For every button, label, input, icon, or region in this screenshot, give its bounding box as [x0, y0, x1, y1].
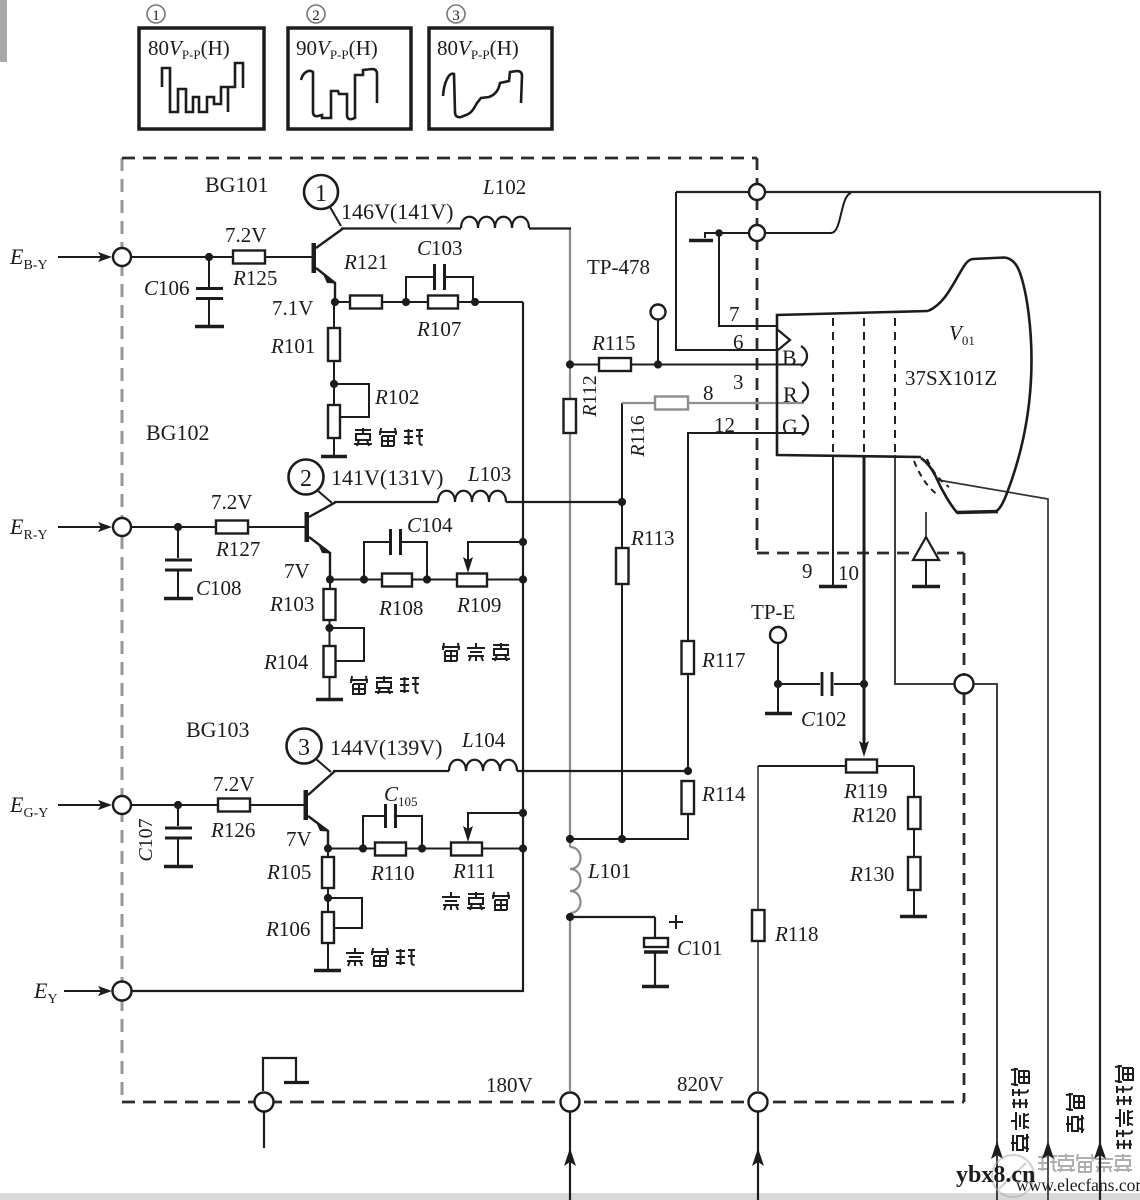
svg-text:R120: R120	[851, 803, 896, 827]
resistor R121	[350, 296, 382, 309]
node dot rail-839	[566, 835, 574, 843]
wire R130 to ground	[913, 890, 915, 915]
potentiometer R106	[322, 898, 362, 969]
resistor R112	[564, 399, 577, 433]
svg-text:7.1V: 7.1V	[272, 296, 313, 320]
svg-text:C107: C107	[135, 818, 157, 861]
svg-text:L104: L104	[461, 728, 506, 752]
ground bar C108	[164, 597, 193, 601]
svg-text:R108: R108	[378, 596, 423, 620]
svg-text:1: 1	[315, 181, 327, 207]
wire R119 rail	[758, 765, 914, 767]
wire below deflection node	[263, 1112, 265, 1149]
wire R115 to B cathode	[631, 364, 804, 366]
node dot EY-R109wiper	[519, 538, 527, 546]
node dot R115 tap on 180V rail	[566, 360, 574, 368]
wire L103 to R113 top	[506, 501, 622, 503]
svg-text:BG103: BG103	[186, 717, 250, 742]
svg-text:C104: C104	[407, 513, 453, 537]
inductor L104	[449, 760, 517, 771]
test point TP-478 circle	[651, 305, 666, 365]
wire input to base BG103	[131, 804, 304, 806]
svg-text:R111: R111	[452, 859, 496, 883]
R109 wiper arrow	[463, 542, 523, 573]
high voltage arrow	[1042, 1141, 1054, 1159]
high voltage label (rotated)	[1066, 1093, 1084, 1133]
svg-text:2: 2	[312, 8, 320, 24]
svg-text:B: B	[782, 345, 797, 370]
svg-text:146V(141V): 146V(141V)	[341, 199, 453, 224]
wire R108 to R109	[412, 579, 457, 581]
input arrow E B-Y	[58, 252, 112, 262]
svg-text:R117: R117	[701, 648, 746, 672]
green drive label	[442, 892, 510, 910]
820V supply wire with arrow	[752, 1112, 764, 1200]
svg-text:C101: C101	[677, 936, 723, 960]
watermark logo circle	[992, 1155, 1034, 1197]
wire collector to L103	[334, 501, 438, 503]
green cutoff label	[346, 948, 415, 966]
resistor R107	[428, 296, 458, 309]
cathode R bracket	[802, 382, 808, 402]
node label circle 2	[307, 5, 325, 24]
resistor R127	[216, 521, 248, 534]
resistor R105	[322, 849, 334, 899]
pin 10 wire	[863, 455, 866, 748]
wire lower circle step up to top line	[765, 193, 851, 233]
capacitor C101 electrolytic	[644, 917, 668, 985]
ground bar C101	[642, 985, 669, 989]
180V rail wire	[569, 228, 571, 1091]
node circle 180V	[561, 1093, 580, 1112]
svg-text:37SX101Z: 37SX101Z	[905, 366, 997, 390]
wire R111 to EY bus	[482, 848, 523, 850]
resistor R116	[655, 397, 688, 410]
capacitor C102	[778, 672, 864, 696]
svg-text:TP-478: TP-478	[587, 255, 650, 279]
svg-text:R118: R118	[774, 922, 819, 946]
svg-text:R107: R107	[416, 317, 461, 341]
capacitor C104	[364, 529, 427, 580]
red drive label	[442, 643, 510, 661]
svg-text:R113: R113	[630, 526, 675, 550]
wire R107 to EY bus	[458, 301, 523, 303]
bottom dashed boundary	[122, 1101, 964, 1104]
collector node circle 1	[304, 175, 341, 226]
svg-text:7: 7	[729, 302, 740, 326]
deflection yoke dashed mark 1	[914, 461, 938, 495]
red cutoff label	[350, 676, 419, 694]
resistor R114	[682, 781, 695, 814]
resistor R108	[382, 574, 412, 587]
node dot TP-478	[654, 360, 662, 368]
svg-text:2: 2	[300, 466, 312, 492]
input terminal circle E R-Y	[113, 518, 131, 536]
node dot R104 wiper	[325, 624, 333, 632]
svg-text:10: 10	[838, 561, 859, 585]
wire rail to R115	[570, 364, 599, 366]
input terminal circle E Y	[113, 982, 132, 1001]
wire L104 to R117 junction	[517, 770, 687, 772]
wire input to base BG102	[131, 526, 305, 528]
svg-text:R121: R121	[343, 250, 388, 274]
svg-text:R115: R115	[591, 331, 636, 355]
svg-text:L101: L101	[587, 859, 631, 883]
svg-text:R106: R106	[265, 917, 310, 941]
resistor R117	[682, 641, 695, 674]
wire R110 to R111	[406, 848, 451, 850]
svg-text:R114: R114	[701, 782, 746, 806]
svg-text:R103: R103	[269, 592, 314, 616]
svg-text:G: G	[782, 414, 798, 439]
test point TP-E circle	[770, 627, 786, 712]
svg-text:R127: R127	[215, 537, 260, 561]
resistor R113	[616, 548, 629, 584]
svg-text:1: 1	[152, 8, 160, 24]
node dot C104 left	[360, 575, 368, 583]
waveform box 1	[139, 28, 264, 129]
svg-text:820V: 820V	[677, 1072, 724, 1096]
wire collector to L104	[333, 770, 449, 772]
svg-text:R104: R104	[263, 650, 309, 674]
collector node circle 3	[287, 729, 332, 773]
resistor R115	[599, 358, 631, 371]
wire R109 to EY bus	[487, 579, 523, 581]
transistor BG103	[304, 771, 336, 849]
CRT neck dashed line 2	[863, 318, 865, 453]
ground bar grid	[689, 239, 713, 243]
node circle deflection on bottom dashed	[255, 1093, 274, 1112]
svg-text:BG102: BG102	[146, 420, 210, 445]
wire collector to L102	[341, 227, 461, 229]
potentiometer R104	[324, 628, 365, 698]
right lower dashed boundary	[963, 553, 966, 1102]
resistor R110	[375, 843, 406, 856]
ground bar C107	[164, 865, 193, 869]
node dot C106 tap	[205, 253, 213, 261]
ground bar R104	[316, 698, 343, 702]
node dot EY-R111	[519, 844, 527, 852]
svg-text:C102: C102	[801, 707, 847, 731]
node dot R106 wiper	[324, 894, 332, 902]
potentiometer R109	[457, 574, 487, 587]
820V rail wire	[757, 766, 759, 1091]
node circle 820V	[749, 1093, 768, 1112]
ground bar R102	[321, 455, 347, 459]
CRT neck dashed line 1	[832, 318, 834, 453]
svg-text:7V: 7V	[284, 559, 310, 583]
node dot EY-R111wiper	[519, 809, 527, 817]
blue cutoff label	[354, 428, 423, 446]
watermark brand hanzi	[1038, 1154, 1132, 1172]
deflection yoke dashed mark 2	[927, 459, 949, 487]
transistor BG101	[312, 229, 344, 303]
wire E Y bus	[132, 302, 524, 991]
wire R120 to R130	[913, 829, 915, 857]
left dashed boundary	[121, 158, 124, 1102]
wire pin7 branch	[719, 233, 777, 326]
svg-text:BG101: BG101	[205, 172, 269, 197]
node dot pin10 C102	[860, 680, 868, 688]
svg-text:R112: R112	[579, 375, 601, 417]
cathode G bracket	[802, 415, 808, 435]
node dot EY-R109	[519, 575, 527, 583]
svg-text:R116: R116	[627, 415, 649, 457]
svg-text:7.2V: 7.2V	[211, 490, 252, 514]
node dot C107 tap	[174, 801, 182, 809]
potentiometer R111	[451, 843, 482, 856]
capacitor C108	[165, 527, 192, 597]
C101 polarity plus	[669, 915, 683, 929]
emitter node dot 7V BG103	[324, 844, 332, 852]
svg-text:3: 3	[733, 370, 744, 394]
pin 9 terminal bar	[819, 585, 847, 588]
svg-text:C106: C106	[144, 276, 190, 300]
resistor R120	[908, 797, 921, 829]
node label circle 3	[447, 5, 465, 24]
capacitor C103	[406, 264, 473, 302]
waveform trace 1	[162, 63, 243, 112]
svg-text:6: 6	[733, 330, 744, 354]
resistor R118	[752, 910, 765, 941]
svg-text:144V(139V): 144V(139V)	[330, 735, 442, 760]
inductor L101	[570, 847, 581, 913]
node dot L103 to R113	[618, 498, 626, 506]
CRT screen bottom thick edge	[957, 512, 998, 513]
ground bar R130	[900, 915, 927, 919]
middle dashed boundary	[757, 552, 964, 555]
wire G cathode branch	[570, 433, 804, 839]
node circle focus exit on dashed line	[955, 675, 974, 694]
svg-text:R110: R110	[370, 861, 415, 885]
wire emitter to R110	[328, 848, 375, 850]
filament voltage wire	[676, 192, 1100, 1200]
top dashed boundary	[122, 157, 757, 160]
inductor L102	[461, 217, 529, 228]
svg-text:L103: L103	[467, 462, 511, 486]
anode arrow triangle	[913, 512, 939, 585]
transistor BG102	[305, 502, 337, 579]
svg-text:R119: R119	[843, 779, 888, 803]
inductor L103	[438, 491, 506, 502]
node dot L104 to R117	[684, 767, 692, 775]
horizontal deflection hook symbol	[263, 1058, 309, 1091]
svg-text:12: 12	[714, 413, 735, 437]
node dot C103 right	[471, 298, 479, 306]
capacitor C107	[165, 805, 192, 865]
CRT socket outline	[777, 311, 928, 457]
waveform trace 3	[443, 71, 522, 117]
CRT funnel and screen outline	[921, 258, 1032, 513]
left edge scan artifact	[0, 0, 7, 62]
focus voltage arrow	[991, 1141, 1003, 1159]
waveform trace 2	[301, 69, 377, 119]
input terminal circle E B-Y	[113, 248, 131, 266]
waveform box 3	[429, 28, 552, 129]
ground bar C106	[195, 325, 224, 329]
bottom edge scan strip	[0, 1193, 1140, 1200]
svg-text:141V(131V): 141V(131V)	[331, 465, 443, 490]
pin 9 wire	[832, 455, 834, 585]
resistor R101	[328, 302, 340, 384]
svg-text:R101: R101	[270, 334, 315, 358]
wire R119 to R120	[913, 766, 915, 797]
node circle on dashed line upper	[749, 184, 765, 200]
input arrow E R-Y	[58, 522, 112, 532]
node dot TP-E C102	[774, 680, 782, 688]
node circle on dashed line lower	[749, 225, 765, 241]
svg-text:R109: R109	[456, 593, 501, 617]
node dot C105 right	[418, 844, 426, 852]
wire pin6 branch	[676, 192, 777, 350]
node dot R113 bottom	[618, 835, 626, 843]
resistor R126	[218, 799, 250, 812]
ground bar R106	[314, 969, 341, 973]
wire emitter to R108	[330, 579, 382, 581]
svg-text:7.2V: 7.2V	[225, 223, 266, 247]
svg-text:TP-E: TP-E	[751, 600, 795, 624]
svg-text:R: R	[783, 382, 798, 407]
svg-text:9: 9	[802, 559, 813, 583]
focus voltage wire	[895, 455, 997, 1200]
cathode B bracket	[801, 346, 807, 366]
ground bar TP-E	[765, 712, 792, 716]
emitter node dot 7V	[326, 575, 334, 583]
svg-text:C103: C103	[417, 236, 463, 260]
wire emitter to R121	[335, 301, 350, 303]
node dot C103 left	[402, 298, 410, 306]
svg-text:R126: R126	[210, 818, 255, 842]
wire L101 to C101	[570, 916, 655, 918]
focus voltage label (rotated)	[1011, 1068, 1029, 1152]
node dot R102 wiper	[330, 380, 338, 388]
node dot C105 left	[359, 844, 367, 852]
svg-text:8: 8	[703, 381, 714, 405]
pin 3/8 wire (R cathode)	[622, 402, 804, 404]
resistor R130	[908, 857, 921, 890]
svg-text:3: 3	[452, 8, 460, 24]
input arrow E Y	[64, 986, 112, 996]
svg-text:7.2V: 7.2V	[213, 772, 254, 796]
wire R113 branch vertical	[621, 403, 623, 839]
svg-text:R125: R125	[232, 266, 277, 290]
node dot L101 bottom	[566, 913, 574, 921]
emitter node dot 7.1V	[331, 298, 339, 306]
waveform box 2	[288, 28, 411, 129]
right upper dashed boundary	[756, 158, 759, 553]
capacitor C105	[363, 804, 422, 849]
resistor R103	[324, 580, 336, 629]
node dot grid branch	[715, 229, 723, 237]
svg-text:180V: 180V	[486, 1073, 533, 1097]
anode terminal bar	[912, 585, 940, 588]
input terminal circle E G-Y	[113, 796, 131, 814]
pin10 wiper arrow onto R119	[859, 741, 869, 757]
collector node circle 2	[289, 460, 333, 504]
svg-text:www.elecfans.com: www.elecfans.com	[1016, 1175, 1140, 1195]
filament voltage arrow	[1094, 1141, 1106, 1159]
input arrow E G-Y	[58, 800, 112, 810]
node label circle 1	[147, 5, 165, 24]
potentiometer R119	[846, 760, 877, 773]
node dot C108 tap	[174, 523, 182, 531]
high voltage wire	[938, 480, 1048, 1200]
node dot C104 right	[423, 575, 431, 583]
resistor R125	[233, 251, 265, 264]
svg-text:R102: R102	[374, 385, 419, 409]
180V supply wire with arrow	[564, 1112, 576, 1200]
svg-text:L102: L102	[482, 175, 526, 199]
wire R121 to R107	[382, 301, 428, 303]
wire L102 to 180V rail corner	[529, 227, 571, 229]
cathode B chevron	[778, 330, 790, 350]
svg-text:7V: 7V	[286, 827, 312, 851]
svg-text:R105: R105	[266, 860, 311, 884]
svg-text:3: 3	[298, 735, 310, 761]
capacitor C106	[196, 257, 223, 325]
filament voltage label (rotated)	[1115, 1065, 1133, 1149]
svg-text:R130: R130	[849, 862, 894, 886]
R111 wiper arrow	[463, 813, 523, 842]
wire lower circle to ground	[705, 233, 749, 238]
svg-text:C108: C108	[196, 576, 242, 600]
CRT neck dashed line 3	[894, 318, 896, 453]
wire input to base BG101	[131, 256, 312, 258]
potentiometer R102	[328, 384, 369, 455]
